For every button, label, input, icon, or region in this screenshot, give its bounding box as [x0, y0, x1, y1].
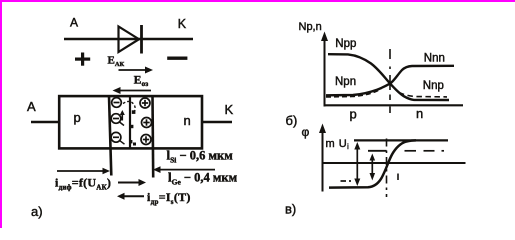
recombination dashed arc	[123, 101, 135, 113]
wire (cathode lead)	[203, 121, 233, 123]
svg-text:m Ui: m Ui	[326, 138, 350, 151]
depletion region right boundary	[151, 96, 154, 178]
diode VD triangle	[119, 27, 140, 53]
acceptor ion 1	[112, 98, 122, 108]
acceptor ion 3	[111, 132, 124, 144]
arrow EAK	[119, 67, 154, 74]
y-axis of potential graph	[319, 124, 326, 192]
dimension line left with arrow	[57, 168, 110, 174]
donor ion 3	[141, 135, 151, 145]
arrow drift current	[117, 193, 144, 200]
y-axis of concentration graph	[321, 32, 328, 107]
x-axis of concentration graph	[324, 104, 464, 106]
dashed minority level right	[399, 93, 447, 97]
svg-text:p: p	[350, 107, 357, 122]
bottom level dash 1	[341, 180, 347, 182]
big double arrow	[354, 142, 360, 186]
svg-text:Npp: Npp	[335, 38, 356, 50]
mid level dash 2	[424, 150, 435, 152]
svg-text:в): в)	[285, 202, 296, 217]
svg-text:K: K	[225, 102, 234, 117]
electron dot 2	[130, 125, 133, 128]
junction dash-dot vertical (potential graph)	[386, 139, 388, 198]
svg-text:lSi − 0,6 мкм: lSi − 0,6 мкм	[167, 148, 234, 165]
small double arrow	[370, 154, 376, 181]
donor ion 1	[140, 98, 150, 108]
junction dash-dot line	[389, 49, 391, 113]
diode cathode bar	[140, 25, 143, 54]
mid level dash 1	[405, 150, 417, 152]
svg-text:Np,n: Np,n	[299, 21, 322, 33]
curve Npp	[328, 54, 449, 100]
electron dot 1	[132, 110, 136, 114]
mid level dot	[442, 150, 445, 152]
zero potential line	[322, 162, 466, 164]
svg-text:K: K	[178, 17, 187, 31]
electron dot 3	[129, 140, 132, 143]
svg-text:а): а)	[31, 204, 43, 219]
svg-text:Nnn: Nnn	[424, 52, 445, 64]
svg-text:n: n	[184, 113, 191, 128]
minus sign	[167, 57, 187, 60]
arrow Eоз	[113, 87, 152, 94]
svg-text:A: A	[27, 99, 36, 114]
carrier up arrow	[120, 110, 125, 121]
svg-text:Nnp: Nnp	[423, 80, 444, 92]
potential curve	[329, 140, 416, 187]
plus sign	[75, 53, 90, 66]
svg-text:Npn: Npn	[335, 76, 356, 88]
bottom level dash 2	[349, 180, 351, 182]
svg-text:A: A	[70, 16, 78, 30]
svg-text:φ: φ	[302, 125, 310, 139]
depletion region left boundary	[109, 96, 111, 176]
electron dot 4	[133, 143, 136, 146]
svg-text:n: n	[416, 106, 423, 121]
semiconductor body rectangle	[59, 96, 202, 148]
curve Nnn	[326, 66, 454, 96]
donor ion 2	[142, 118, 152, 128]
dashed minority level left	[326, 89, 381, 97]
top potential level line	[354, 139, 448, 141]
small vertical dash	[397, 174, 399, 181]
wire (anode lead)	[31, 121, 58, 123]
acceptor ion 2	[111, 114, 124, 126]
wire (diode horizontal lead)	[64, 38, 193, 40]
dimension line right with arrow	[153, 166, 215, 173]
arrow diffusion current	[118, 179, 146, 186]
mid level solid segment	[368, 150, 387, 152]
svg-text:б): б)	[286, 113, 298, 128]
depletion region middle divider	[129, 96, 131, 148]
svg-text:p: p	[74, 110, 81, 125]
